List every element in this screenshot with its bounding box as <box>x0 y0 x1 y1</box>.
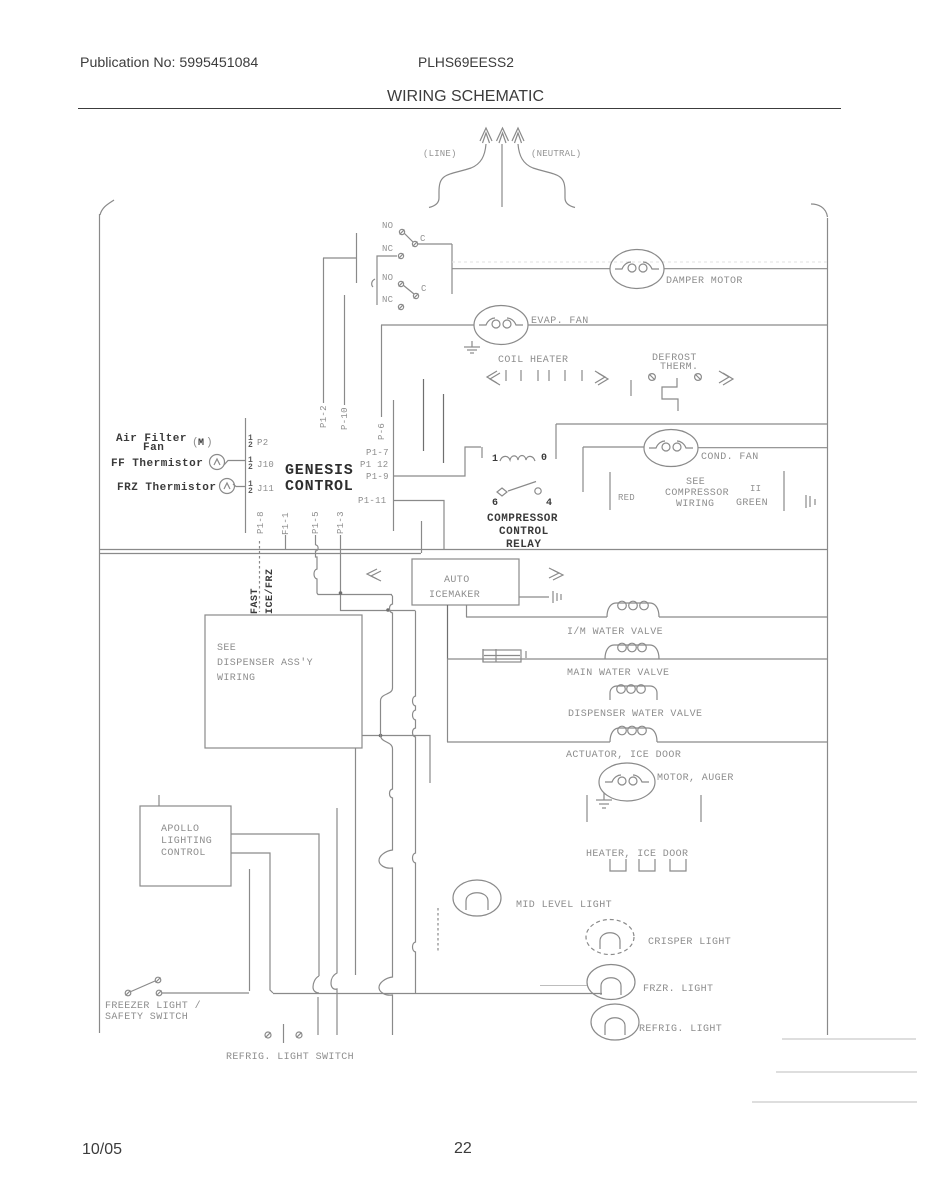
genesis control right edge <box>393 400 395 531</box>
wire IM valve feed <box>466 616 607 618</box>
svg-text:P2: P2 <box>257 438 268 448</box>
stub right of auger <box>700 795 702 822</box>
svg-text:FRZ Thermistor: FRZ Thermistor <box>117 482 216 494</box>
svg-text:NO: NO <box>382 273 393 283</box>
svg-text:(NEUTRAL): (NEUTRAL) <box>531 149 581 159</box>
wire actuator to bus <box>657 741 827 743</box>
svg-text:P1-3: P1-3 <box>336 511 346 534</box>
svg-text:REFRIG. LIGHT SWITCH: REFRIG. LIGHT SWITCH <box>226 1052 354 1063</box>
svg-text:2: 2 <box>248 487 253 496</box>
svg-text:P1-5: P1-5 <box>311 511 321 534</box>
title underline <box>78 108 841 110</box>
wire center line <box>501 144 503 207</box>
svg-text:REFRIG. LIGHT: REFRIG. LIGHT <box>639 1024 722 1035</box>
switch S2 NO terminal <box>398 281 403 286</box>
svg-text:COMPRESSOR: COMPRESSOR <box>487 513 558 525</box>
cond fan hanging stub <box>582 447 584 492</box>
solenoid main water valve <box>605 643 659 659</box>
svg-text:FF Thermistor: FF Thermistor <box>111 458 203 470</box>
svg-text:MOTOR, AUGER: MOTOR, AUGER <box>657 773 734 784</box>
svg-text:): ) <box>206 437 213 449</box>
svg-text:WIRING: WIRING <box>676 499 714 510</box>
label SEE DISPENSER ASS'Y WIRING <box>217 643 313 684</box>
stub left of auger <box>586 795 588 822</box>
wire box bottom exit <box>362 736 430 784</box>
svg-text:P1-9: P1-9 <box>366 472 389 482</box>
svg-text:2: 2 <box>248 441 253 450</box>
pin label P-10 rotated <box>340 407 350 430</box>
wire P1-3 down <box>341 549 416 611</box>
svg-text:WIRING SCHEMATIC: WIRING SCHEMATIC <box>387 88 544 105</box>
defrost thermostat step element <box>662 378 678 411</box>
label AUTO ICEMAKER <box>429 575 480 601</box>
wire evap to bus <box>528 324 827 326</box>
air filter fan motor symbol <box>192 437 213 449</box>
wire riser joining lower bus <box>421 521 423 553</box>
switch S2 blade <box>403 285 414 294</box>
svg-text:CONTROL: CONTROL <box>499 526 549 538</box>
wire to defrost switch <box>323 257 356 259</box>
svg-text:DISPENSER ASS'Y: DISPENSER ASS'Y <box>217 657 313 669</box>
faint note line 3 <box>752 1101 917 1103</box>
connector symbol <box>553 591 561 603</box>
svg-text:ICEMAKER: ICEMAKER <box>429 590 480 601</box>
label SEE COMPRESSOR WIRING <box>665 477 729 510</box>
cond fan feed wire <box>583 446 644 448</box>
bus wire lower <box>99 553 421 555</box>
heater element 1 <box>610 859 626 871</box>
ground motor auger <box>596 793 612 808</box>
junction dot <box>339 591 343 595</box>
svg-text:RED: RED <box>618 493 635 503</box>
defrost chevrons right <box>719 371 733 385</box>
svg-text:6: 6 <box>492 498 499 509</box>
wire P1-5 stub <box>315 535 317 545</box>
node FAST ICE/FRZ dashed wire <box>259 541 261 612</box>
evap fan motor M2 <box>474 306 528 345</box>
junction dot <box>379 734 383 738</box>
crisper light LP2 <box>586 920 634 955</box>
fuse main valve <box>483 649 526 662</box>
svg-text:ACTUATOR, ICE DOOR: ACTUATOR, ICE DOOR <box>566 750 681 761</box>
apollo lighting control box <box>140 806 231 886</box>
svg-text:THERM.: THERM. <box>660 362 698 373</box>
switch S1 bracket <box>377 256 397 305</box>
left border vertical wire <box>99 214 101 1033</box>
wire coil feed stub <box>481 447 483 458</box>
damper motor M1 <box>610 250 664 289</box>
wire icemaker bottom drop B <box>466 605 468 617</box>
svg-text:DAMPER MOTOR: DAMPER MOTOR <box>666 276 743 287</box>
wire C1 to bracket <box>418 243 452 245</box>
switch S1 blade <box>404 233 413 242</box>
mid level light LP1 <box>453 880 501 916</box>
svg-text:FRZR. LIGHT: FRZR. LIGHT <box>643 984 713 995</box>
svg-text:F1-1: F1-1 <box>281 512 291 535</box>
defrost thermostat terminal left <box>649 374 656 381</box>
chevrons above connector <box>549 568 563 580</box>
svg-text:FREEZER LIGHT /: FREEZER LIGHT / <box>105 1000 201 1012</box>
wire P1-3 stub <box>340 535 342 549</box>
svg-text:II: II <box>750 484 761 494</box>
compressor wiring left bar <box>609 472 611 510</box>
dashed stub <box>437 908 439 952</box>
switch S1 NC terminal <box>398 253 403 258</box>
svg-text:P1 12: P1 12 <box>360 460 389 470</box>
node N neutral arrow <box>512 128 524 143</box>
svg-text:P-10: P-10 <box>340 407 350 430</box>
relay K1 coil <box>500 456 535 462</box>
genesis control left edge <box>245 418 247 533</box>
switch S2 C terminal <box>413 293 418 298</box>
svg-text:P1-11: P1-11 <box>358 496 387 506</box>
faint note line 1 <box>782 1038 916 1040</box>
chevrons near icemaker <box>367 569 381 581</box>
svg-text:Fan: Fan <box>143 442 164 454</box>
coil heater element <box>487 370 608 385</box>
right bus vertical wire <box>827 218 829 1035</box>
label APOLLO LIGHTING CONTROL <box>161 824 212 859</box>
svg-text:1: 1 <box>492 454 499 465</box>
wire P1-7 drop <box>423 379 425 451</box>
dispenser assy box <box>205 615 362 748</box>
svg-text:10/05: 10/05 <box>82 1141 122 1158</box>
node P1-2 column wire <box>323 258 325 403</box>
label GENESIS CONTROL <box>285 462 354 495</box>
wire apollo upper hop to bus <box>313 976 319 993</box>
svg-text:DISPENSER WATER VALVE: DISPENSER WATER VALVE <box>568 709 702 720</box>
auto icemaker box <box>412 559 519 605</box>
wire actuator feed <box>447 741 610 743</box>
svg-text:COIL HEATER: COIL HEATER <box>498 355 568 366</box>
pin label P1-5 rotated <box>311 511 321 534</box>
svg-text:LIGHTING: LIGHTING <box>161 836 212 847</box>
pin label P1-2 rotated <box>319 405 329 428</box>
pin label J10 <box>248 456 274 472</box>
pin label F1-1 rotated <box>281 512 291 535</box>
wire damper to bus <box>664 268 827 270</box>
wire apollo out lower <box>231 853 273 993</box>
wire freezer line to lights <box>273 993 602 995</box>
svg-text:AUTO: AUTO <box>444 575 470 586</box>
wire stub below heater <box>630 380 632 396</box>
pin label J11 <box>248 480 274 496</box>
svg-text:22: 22 <box>454 1140 472 1157</box>
svg-text:COND. FAN: COND. FAN <box>701 452 759 463</box>
svg-text:M: M <box>198 438 205 449</box>
label FAST rotated <box>250 588 261 614</box>
svg-text:NC: NC <box>382 244 394 254</box>
wire riser freezer-line <box>249 869 251 991</box>
node P-10 column wire <box>344 295 346 405</box>
wire column V1 with hops <box>379 596 393 1035</box>
motor auger M4 <box>599 763 655 801</box>
wire neutral-side brace <box>518 144 575 208</box>
wire P1-11 row <box>394 501 444 550</box>
svg-text:APOLLO: APOLLO <box>161 824 199 835</box>
svg-text:P1-7: P1-7 <box>366 448 389 458</box>
wire icemaker right exit <box>519 596 549 598</box>
switch S1 C terminal <box>412 241 417 246</box>
wire P1-5 corner <box>391 595 393 597</box>
svg-text:I/M WATER VALVE: I/M WATER VALVE <box>567 626 663 638</box>
svg-text:2: 2 <box>248 463 253 472</box>
svg-text:MAIN WATER VALVE: MAIN WATER VALVE <box>567 668 669 679</box>
svg-text:C: C <box>420 234 426 244</box>
node L2 center arrow <box>497 128 509 143</box>
faint dashed line node <box>452 261 827 263</box>
FF thermistor RT1 symbol <box>210 455 246 470</box>
solenoid dispenser water valve <box>610 685 657 700</box>
label ICE/FRZ rotated <box>264 568 276 614</box>
wire P1-9 to coil feed <box>393 447 481 476</box>
svg-text:(LINE): (LINE) <box>423 149 457 159</box>
switch S1 NO terminal <box>399 229 404 234</box>
relay K1 switch terminal 6 <box>497 488 507 496</box>
ground ticks far right <box>806 495 815 508</box>
left border top hook <box>100 200 114 215</box>
svg-text:C: C <box>421 284 427 294</box>
svg-text:J10: J10 <box>257 460 274 470</box>
wire main-to-actuator riser <box>447 659 449 742</box>
faint stub to frzr light <box>540 985 587 987</box>
svg-text:P1-8: P1-8 <box>256 511 266 534</box>
svg-text:NC: NC <box>382 295 394 305</box>
wire P1-5 hop over bus <box>314 545 392 595</box>
svg-text:WIRING: WIRING <box>217 673 255 684</box>
wire P1-12 drop <box>443 394 445 463</box>
relay K1 switch blade <box>508 482 536 492</box>
svg-text:NO: NO <box>382 221 393 231</box>
label COMPRESSOR CONTROL RELAY <box>487 513 558 551</box>
right bus top hook <box>811 204 828 217</box>
svg-text:GENESIS: GENESIS <box>285 462 354 479</box>
svg-text:PLHS69EESS2: PLHS69EESS2 <box>418 55 514 70</box>
refrig light switch <box>265 1024 302 1043</box>
svg-text:GREEN: GREEN <box>736 498 768 509</box>
svg-text:0: 0 <box>541 453 548 464</box>
wire line-side brace <box>429 144 486 208</box>
frzr light LP3 <box>587 965 635 1000</box>
wire apollo out upper <box>231 834 319 976</box>
solenoid IM water valve <box>607 601 659 617</box>
svg-text:Publication No: 5995451084: Publication No: 5995451084 <box>80 55 258 71</box>
switch S2 NC terminal <box>398 304 403 309</box>
svg-text:CONTROL: CONTROL <box>161 848 206 859</box>
svg-text:4: 4 <box>546 498 553 509</box>
wire switch to riser <box>162 992 249 994</box>
svg-text:ICE/FRZ: ICE/FRZ <box>264 568 276 614</box>
pin label P-6 rotated <box>377 423 387 440</box>
wire IM valve to bus <box>659 616 827 618</box>
wire evap feed <box>381 324 474 326</box>
wire relay coil output riser <box>555 424 557 459</box>
wire relay top to bus <box>556 423 827 425</box>
compressor wiring right bar <box>783 471 785 511</box>
freezer light safety switch <box>125 977 162 996</box>
relay K1 switch terminal 4 <box>535 488 541 494</box>
svg-text:SEE: SEE <box>217 643 236 654</box>
defrost thermostat terminal right <box>695 374 702 381</box>
svg-text:P1-2: P1-2 <box>319 405 329 428</box>
ground evap fan <box>464 341 480 353</box>
hook mark left of S2 <box>372 279 375 287</box>
svg-text:CRISPER LIGHT: CRISPER LIGHT <box>648 937 731 948</box>
refrig light LP4 <box>591 1004 639 1040</box>
wire column d1 <box>331 808 337 1035</box>
cond fan motor M3 <box>644 430 698 467</box>
bus wire upper <box>99 549 827 551</box>
svg-text:FAST: FAST <box>250 588 261 614</box>
pin label P1-3 rotated <box>336 511 346 534</box>
heater element 2 <box>639 859 655 871</box>
wire cond fan to bus <box>698 447 827 449</box>
wire damper feed <box>452 268 610 270</box>
switch right bracket <box>451 244 453 294</box>
wire main valve feed <box>447 658 827 660</box>
apollo box top tick <box>158 795 160 806</box>
refrig switch drop 1 <box>317 997 319 1035</box>
label Air Filter Fan <box>116 433 187 454</box>
faint note line 2 <box>776 1071 917 1073</box>
pin label P2 <box>248 434 268 450</box>
svg-text:MID LEVEL LIGHT: MID LEVEL LIGHT <box>516 900 612 911</box>
svg-text:SAFETY SWITCH: SAFETY SWITCH <box>105 1012 188 1023</box>
wire F1-1 stub <box>285 535 287 549</box>
svg-text:SEE: SEE <box>686 477 705 488</box>
wire stub above switch <box>356 233 358 283</box>
junction dot <box>386 608 390 612</box>
svg-text:J11: J11 <box>257 484 274 494</box>
solenoid actuator ice door <box>610 726 657 742</box>
FRZ thermistor RT2 symbol <box>220 479 246 494</box>
svg-text:COMPRESSOR: COMPRESSOR <box>665 488 729 499</box>
node L1 line-in arrow <box>480 128 492 143</box>
wire column mid <box>355 748 357 975</box>
wire icemaker bottom drop A <box>447 605 449 659</box>
svg-text:CONTROL: CONTROL <box>285 478 354 495</box>
heater element 3 <box>670 859 686 871</box>
svg-text:HEATER, ICE DOOR: HEATER, ICE DOOR <box>586 849 688 860</box>
node P-6 column wire <box>381 325 383 417</box>
wire column V2 with hops <box>413 611 416 993</box>
pin label P1-8 rotated <box>256 511 266 534</box>
svg-text:P-6: P-6 <box>377 423 387 440</box>
